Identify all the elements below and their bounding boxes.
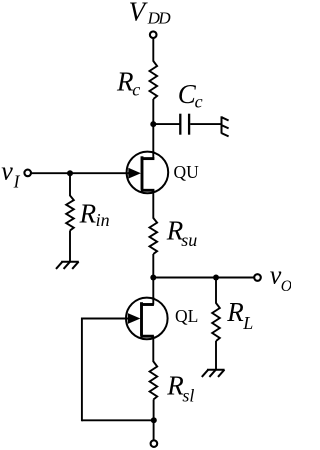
svg-text:c: c — [195, 92, 203, 112]
wire R_in to ground — [69, 231, 71, 262]
capacitor C_c — [179, 114, 181, 135]
wire R_L to ground — [215, 341, 217, 370]
wire capacitor to chassis ground — [190, 123, 221, 125]
svg-text:su: su — [181, 230, 197, 250]
resistor R_su — [150, 218, 158, 254]
wire V_DD terminal to R_c — [152, 38, 154, 62]
resistor R_in — [66, 196, 74, 231]
svg-text:DD: DD — [147, 9, 172, 28]
chassis ground right of C_c (rotated) — [222, 116, 229, 136]
transistor QL — [126, 297, 168, 339]
wire junction to capacitor — [153, 123, 180, 125]
svg-text:QL: QL — [175, 306, 198, 326]
node junction R_su/QL — [150, 275, 156, 281]
input: wire v_I terminal to QU gate — [31, 172, 129, 174]
resistor R_L — [212, 303, 220, 341]
svg-text:sl: sl — [182, 386, 194, 406]
node junction bottom — [151, 417, 157, 423]
svg-text:L: L — [242, 313, 253, 333]
svg-text:V: V — [129, 0, 149, 27]
wire node to R_L — [215, 278, 217, 304]
wire output node to v_O terminal — [153, 277, 254, 279]
node junction at Rc/Cc — [150, 121, 156, 127]
wire QU source to R_su — [152, 190, 154, 218]
wire output node down to QL drain — [152, 278, 154, 305]
wire QL gate feedback: left — [82, 318, 129, 320]
resistor R_sl — [150, 362, 158, 400]
terminal V_DD — [150, 31, 157, 38]
ground under R_L — [207, 369, 225, 371]
transistor QU — [127, 151, 169, 193]
svg-text:c: c — [132, 79, 140, 99]
svg-text:O: O — [281, 278, 291, 295]
node junction R_L — [213, 275, 219, 281]
ground under R_in — [61, 261, 79, 263]
wire QL source to R_sl — [152, 336, 154, 362]
terminal v_O — [254, 274, 261, 281]
svg-text:in: in — [96, 210, 110, 230]
wire feedback bottom horizontal — [82, 419, 154, 421]
svg-text:I: I — [13, 171, 21, 191]
svg-text:R: R — [226, 297, 244, 327]
svg-text:v: v — [1, 157, 13, 186]
svg-text:R: R — [79, 198, 97, 228]
terminal bottom — [151, 440, 158, 447]
wire R_sl to bottom node — [153, 400, 155, 441]
wire feedback vertical — [81, 318, 83, 422]
wire R_c to QU drain — [152, 99, 154, 159]
wire node to R_in — [69, 173, 71, 196]
node junction v_I/R_in — [67, 170, 73, 176]
resistor Rc — [150, 61, 158, 99]
svg-text:R: R — [116, 66, 134, 96]
svg-text:QU: QU — [174, 162, 200, 182]
wire R_su to output node — [152, 254, 154, 278]
terminal v_I — [24, 170, 31, 177]
